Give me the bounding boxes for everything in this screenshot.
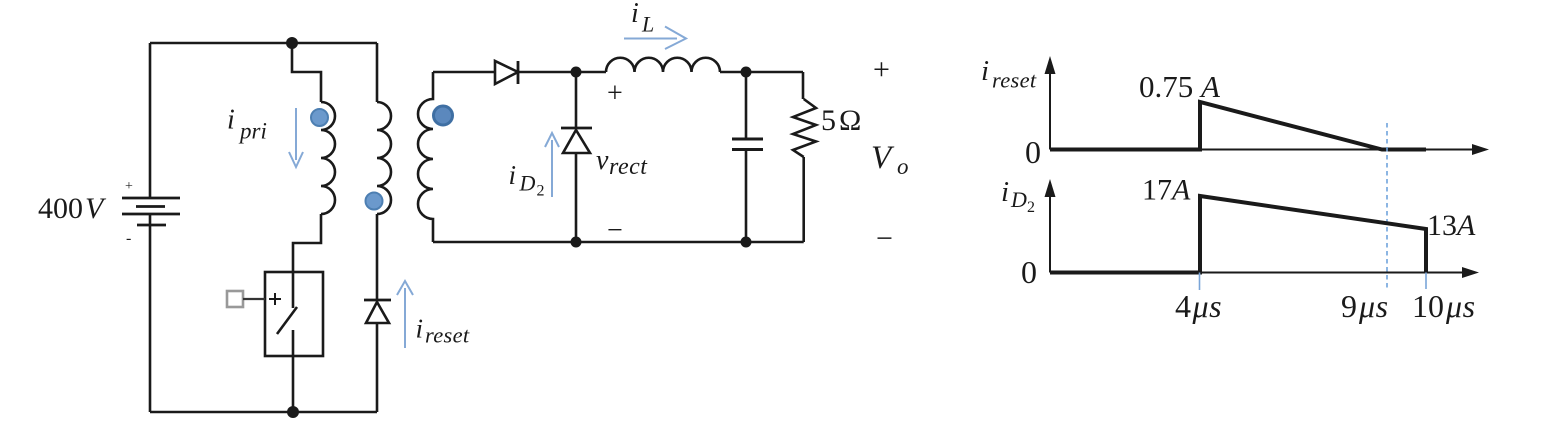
node bottom junction D2	[571, 237, 582, 248]
polarity dot reset winding	[366, 193, 383, 210]
wire switch to bottom rail	[292, 356, 295, 412]
axis x plot2	[1050, 272, 1464, 274]
svg-text:2: 2	[1027, 199, 1035, 216]
node capacitor bottom junction	[741, 237, 752, 248]
wire reset winding to diode	[376, 214, 379, 300]
switch Q1 (box with ideal switch)	[265, 272, 323, 356]
svg-text:i: i	[981, 55, 989, 87]
node bottom junction	[287, 406, 299, 418]
svg-text:i: i	[227, 105, 235, 136]
wire resistor branch	[802, 72, 805, 99]
svg-text:reset: reset	[425, 323, 470, 348]
svg-text:17A: 17A	[1142, 174, 1191, 207]
arrow i_L (blue, right)	[624, 27, 686, 50]
polarity dot primary	[311, 109, 328, 126]
axis y plot2	[1049, 194, 1051, 273]
arrow i_reset (blue, up)	[397, 281, 413, 348]
inductor L	[606, 58, 720, 72]
svg-text:−: −	[876, 222, 893, 255]
svg-text:D: D	[1010, 187, 1027, 212]
svg-text:i: i	[416, 314, 424, 344]
svg-text:D: D	[519, 171, 536, 196]
waveform i_reset trace	[1050, 102, 1426, 150]
tick 10us (blue)	[1425, 273, 1427, 290]
svg-text:reset: reset	[992, 68, 1037, 93]
svg-text:0: 0	[1021, 254, 1037, 290]
transformer secondary winding	[418, 72, 433, 242]
wire left branch	[149, 43, 152, 412]
wire resistor bottom lead	[802, 157, 805, 242]
battery V1 400V	[122, 198, 180, 225]
wire secondary bottom rail	[433, 241, 804, 244]
svg-text:4μs: 4μs	[1175, 288, 1222, 324]
svg-text:i: i	[631, 0, 639, 29]
wire inductor to output node	[720, 71, 803, 74]
arrow i_pri (blue, down)	[289, 108, 303, 167]
wire capacitor top lead	[745, 72, 748, 139]
resistor R 5ohm	[793, 99, 816, 157]
svg-text:i: i	[509, 160, 517, 190]
svg-text:0.75: 0.75	[1139, 69, 1193, 104]
svg-text:rect: rect	[609, 154, 648, 180]
axis y plot1	[1049, 71, 1051, 150]
node top junction	[286, 37, 298, 49]
svg-text:9μs: 9μs	[1341, 288, 1389, 324]
svg-text:-: -	[126, 230, 131, 247]
svg-text:v: v	[596, 145, 609, 176]
wire D1 to node	[518, 71, 606, 74]
svg-text:pri: pri	[238, 119, 267, 144]
diode D2 (freewheeling)	[561, 127, 592, 130]
svg-text:L: L	[641, 12, 654, 37]
wire reset winding top lead	[376, 43, 379, 102]
svg-text:o: o	[897, 154, 909, 179]
svg-text:0: 0	[1025, 134, 1041, 170]
svg-text:+: +	[125, 179, 133, 194]
svg-text:A: A	[1199, 69, 1221, 104]
wire primary bottom lead	[293, 214, 321, 272]
axis x plot1	[1050, 149, 1474, 151]
svg-text:+: +	[873, 53, 890, 86]
gate terminal square	[227, 291, 243, 307]
svg-text:i: i	[1001, 176, 1009, 208]
transformer reset winding	[377, 102, 391, 214]
diode D1 (series)	[495, 61, 518, 84]
tick 4us (blue)	[1199, 273, 1201, 291]
wire gate lead	[243, 298, 265, 300]
wire top rail	[150, 42, 377, 45]
svg-text:2: 2	[537, 183, 545, 200]
svg-text:10μs: 10μs	[1412, 288, 1476, 324]
waveform i_D2 trace	[1050, 196, 1426, 273]
diode D_reset	[364, 299, 391, 302]
transformer primary winding	[321, 102, 335, 214]
wire primary top lead	[292, 43, 321, 102]
capacitor C	[732, 138, 763, 141]
wire secondary top	[433, 71, 495, 74]
wire D2 branch	[575, 72, 578, 242]
svg-text:+: +	[607, 78, 623, 109]
wire diode to bottom rail	[376, 323, 379, 412]
svg-text:400V: 400V	[38, 192, 107, 225]
wire capacitor bottom lead	[745, 150, 748, 243]
node rect junction	[571, 67, 582, 78]
svg-text:13A: 13A	[1427, 209, 1476, 242]
node output top junction	[741, 67, 752, 78]
polarity dot secondary	[434, 106, 453, 125]
wire bottom rail	[150, 411, 377, 414]
svg-text:5Ω: 5Ω	[821, 104, 861, 137]
arrow i_D2 (blue, up)	[545, 133, 559, 197]
dashed guide line 9us	[1386, 123, 1388, 290]
